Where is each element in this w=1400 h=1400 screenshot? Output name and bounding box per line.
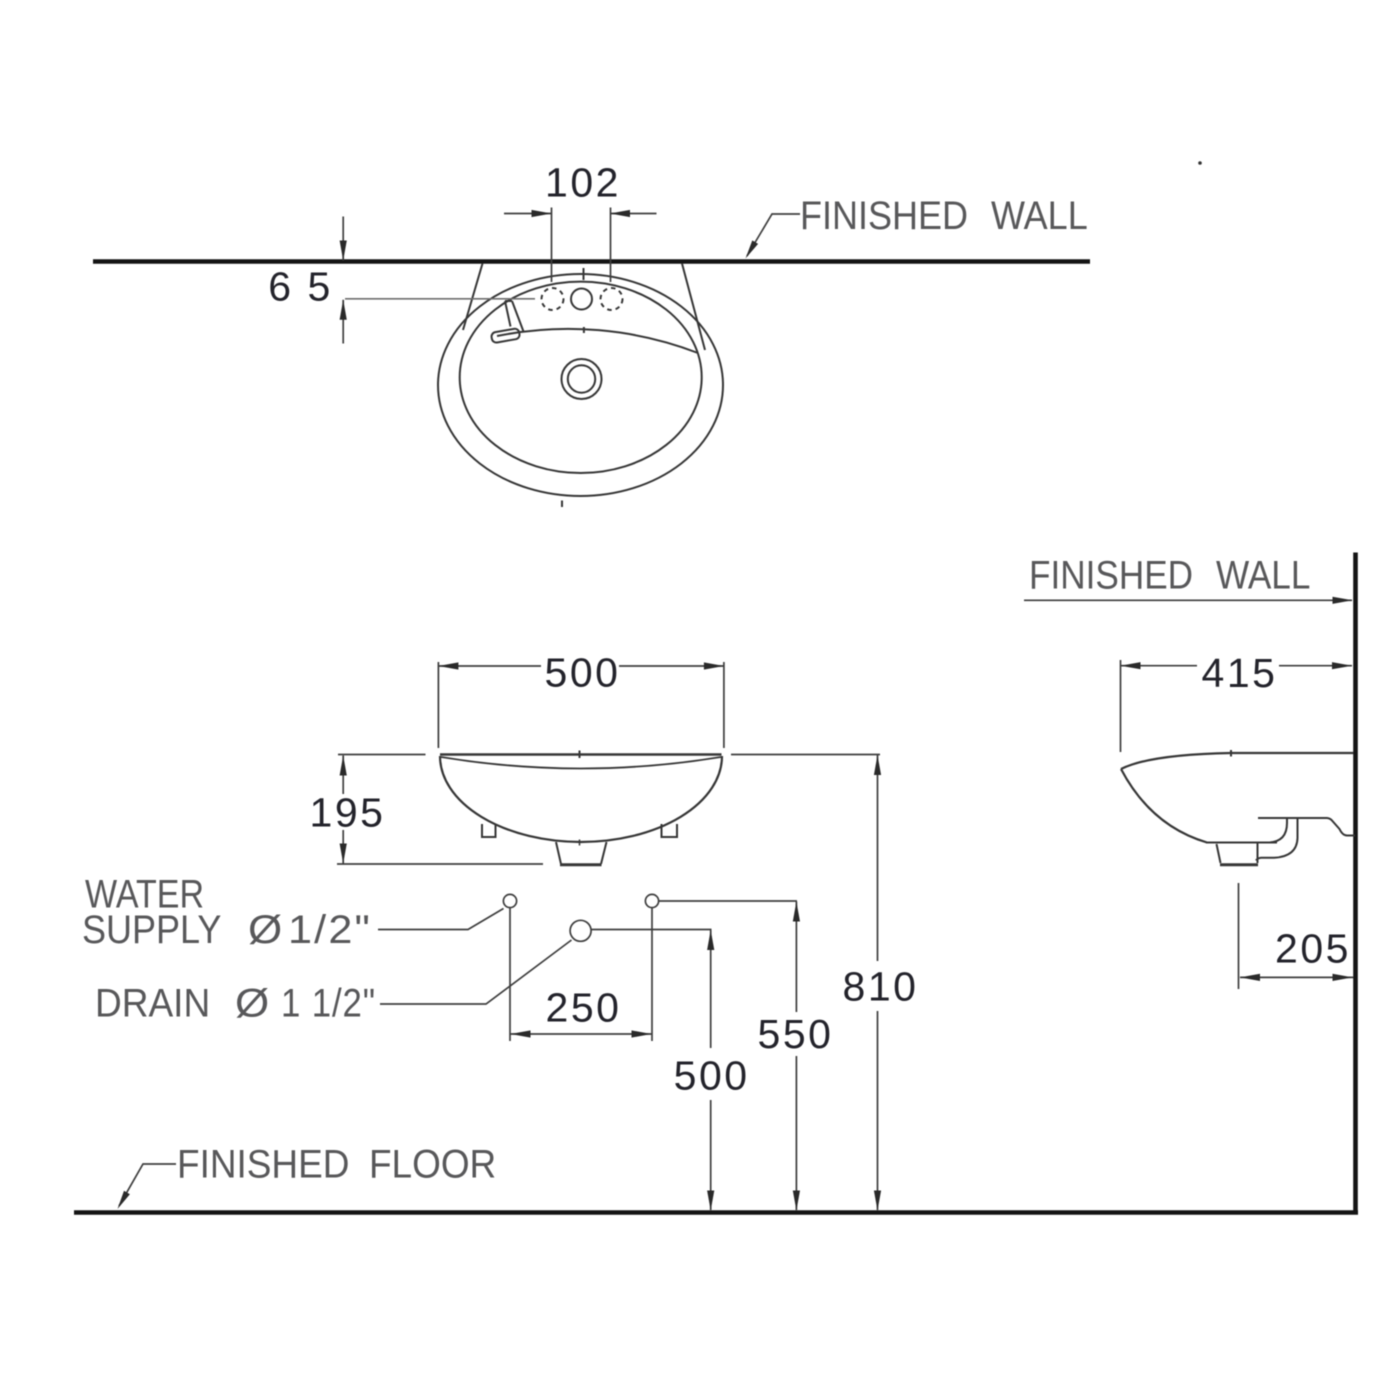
svg-text:FINISHED WALL: FINISHED WALL: [1029, 552, 1310, 597]
svg-text:DRAIN: DRAIN: [95, 981, 210, 1026]
svg-text:FINISHED FLOOR: FINISHED FLOOR: [177, 1142, 496, 1187]
svg-text:Ø: Ø: [235, 980, 269, 1025]
svg-text:250: 250: [546, 984, 622, 1030]
svg-text:195: 195: [310, 790, 386, 836]
svg-text:415: 415: [1202, 650, 1278, 696]
svg-text:550: 550: [758, 1011, 834, 1057]
svg-text:FINISHED WALL: FINISHED WALL: [800, 194, 1088, 238]
svg-text:6 5: 6 5: [268, 263, 333, 309]
svg-text:1/2": 1/2": [288, 906, 372, 951]
svg-text:810: 810: [843, 964, 919, 1010]
svg-text:1 1/2": 1 1/2": [281, 980, 376, 1025]
svg-text:500: 500: [545, 650, 621, 696]
svg-text:Ø: Ø: [248, 907, 282, 952]
svg-text:500: 500: [674, 1052, 750, 1098]
svg-text:205: 205: [1275, 926, 1351, 972]
svg-text:102: 102: [545, 159, 621, 205]
svg-text:SUPPLY: SUPPLY: [82, 908, 221, 952]
